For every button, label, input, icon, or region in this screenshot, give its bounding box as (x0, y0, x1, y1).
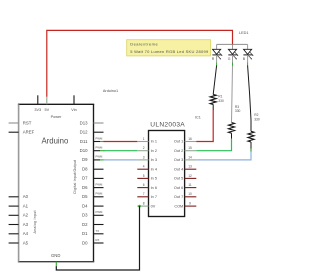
svg-text:LED1: LED1 (239, 31, 249, 35)
svg-text:14: 14 (188, 155, 192, 159)
wire R3 to Out 2 (green) (196, 139, 231, 151)
junction dot at 0V pin (138, 205, 141, 208)
pin GND (connected) (55, 262, 57, 267)
svg-text:13: 13 (188, 165, 192, 169)
svg-text:0V: 0V (151, 204, 156, 208)
svg-text:GND: GND (51, 253, 60, 258)
note Dealextreme (127, 40, 211, 56)
svg-text:D11: D11 (80, 139, 88, 144)
pin D2 (82, 222, 104, 227)
wire GND to 0V (green then black) (56, 206, 139, 270)
svg-text:8: 8 (143, 202, 145, 206)
svg-text:330: 330 (218, 99, 224, 103)
svg-text:11: 11 (188, 183, 192, 187)
pin D0 (82, 238, 104, 245)
svg-text:A1: A1 (23, 203, 29, 208)
svg-text:Out 1: Out 1 (174, 140, 183, 144)
ULN pin 1 (In 1) (137, 137, 157, 144)
svg-text:In 7: In 7 (151, 195, 157, 199)
green tip at R2/Out3 junction (250, 149, 252, 152)
pin D9 (82, 155, 105, 163)
ULN pin 8 (0V) (137, 202, 155, 209)
svg-text:A0: A0 (23, 194, 29, 199)
svg-text:330: 330 (235, 109, 241, 113)
svg-text:D8: D8 (82, 167, 88, 172)
ULN pin 10 (Out 7) (174, 192, 196, 199)
pin A3 (9, 222, 29, 227)
svg-text:1: 1 (143, 137, 145, 141)
svg-text:RST: RST (23, 120, 32, 125)
svg-text:In 5: In 5 (151, 177, 157, 181)
wire D10 to In 2 (green) (104, 150, 138, 152)
svg-text:12: 12 (188, 174, 192, 178)
LED1 green diode element (228, 44, 239, 66)
svg-text:5: 5 (143, 174, 145, 178)
ULN pin 2 (In 2) (137, 146, 157, 153)
ULN pin 5 (In 5) (137, 174, 157, 181)
svg-text:RX: RX (96, 238, 100, 242)
svg-text:Vin: Vin (71, 108, 76, 112)
svg-text:In 3: In 3 (151, 158, 157, 162)
svg-text:G: G (228, 57, 231, 61)
pin 5V (connected) (44, 97, 49, 112)
ULN pin 3 (In 3) (137, 155, 157, 162)
LED1 blue diode element (243, 44, 254, 66)
pin A5 (9, 240, 29, 245)
svg-text:D7: D7 (82, 176, 88, 181)
pin D4 (82, 203, 104, 208)
wire 5V to LED1 anodes (red) (47, 30, 233, 96)
svg-text:PWM: PWM (96, 182, 104, 186)
svg-text:A4: A4 (23, 231, 29, 236)
ULN pin 9 (COM) (174, 202, 196, 209)
pin Vin (71, 95, 76, 112)
svg-text:D9: D9 (82, 157, 88, 162)
svg-text:2: 2 (143, 146, 145, 150)
svg-text:Out 6: Out 6 (174, 186, 183, 190)
ULN pin 6 (In 6) (137, 183, 157, 190)
ULN pin 11 (Out 6) (174, 183, 196, 190)
ULN pin 15 (Out 2) (174, 146, 196, 153)
svg-text:10: 10 (188, 192, 192, 196)
svg-text:D0: D0 (82, 240, 88, 245)
ULN pin 7 (In 7) (137, 192, 157, 199)
LED1 red diode element (212, 44, 223, 66)
svg-text:Out 2: Out 2 (174, 149, 183, 153)
svg-text:9: 9 (189, 202, 191, 206)
wire R1 to Out 1 (red) (196, 110, 213, 142)
svg-text:7: 7 (143, 192, 145, 196)
pin 3V3 (34, 95, 41, 112)
svg-text:330: 330 (254, 118, 260, 122)
svg-text:5 Watt 70 Lumen RGB Led SKU 28: 5 Watt 70 Lumen RGB Led SKU 28099 (130, 49, 209, 54)
pin D3 (82, 210, 104, 218)
svg-text:AREF: AREF (23, 130, 35, 135)
pin D8 (82, 167, 104, 172)
pin D5 (82, 192, 104, 200)
svg-text:6: 6 (143, 183, 145, 187)
svg-text:ULN2003A: ULN2003A (150, 122, 185, 129)
pin D6 (82, 182, 104, 190)
svg-text:5V: 5V (44, 108, 49, 112)
svg-text:D5: D5 (82, 194, 88, 199)
svg-text:Power: Power (51, 115, 62, 119)
ULN pin 16 (Out 1) (174, 137, 196, 144)
svg-text:Out 5: Out 5 (174, 177, 183, 181)
svg-text:PWM: PWM (96, 210, 104, 214)
svg-text:IC1: IC1 (195, 116, 201, 120)
svg-text:COM: COM (174, 204, 183, 208)
pin RST (9, 120, 32, 125)
svg-text:Out 4: Out 4 (174, 167, 183, 171)
svg-text:Out 7: Out 7 (174, 195, 183, 199)
wire R2 to Out 3 (blue) (196, 149, 251, 160)
svg-text:D3: D3 (82, 213, 88, 218)
svg-text:PWM: PWM (96, 192, 104, 196)
resistor R1 330 (210, 94, 224, 110)
svg-text:In 6: In 6 (151, 186, 157, 190)
pin A1 (9, 203, 29, 208)
svg-text:Digital Input/Output: Digital Input/Output (73, 160, 77, 194)
resistor R3 330 (229, 105, 241, 139)
ULN2003A IC1 body (149, 131, 185, 217)
resistor R2 330 (248, 113, 260, 148)
svg-text:D4: D4 (82, 203, 88, 208)
svg-text:D1: D1 (82, 231, 88, 236)
svg-text:A2: A2 (23, 213, 29, 218)
svg-text:PWM: PWM (96, 136, 104, 140)
svg-text:TX: TX (96, 229, 100, 233)
pin D13 (80, 120, 104, 125)
pin D12 (80, 130, 104, 135)
svg-text:D6: D6 (82, 185, 88, 190)
pin A2 (9, 213, 29, 218)
LED1 anode bus wire (217, 43, 248, 45)
svg-text:4: 4 (143, 165, 145, 169)
ULN pin 4 (In 4) (137, 165, 157, 172)
svg-text:3: 3 (143, 155, 145, 159)
svg-text:3V3: 3V3 (34, 108, 41, 112)
svg-text:Dealextreme: Dealextreme (130, 41, 158, 46)
svg-text:D12: D12 (80, 130, 88, 135)
svg-text:D2: D2 (82, 222, 88, 227)
svg-text:PWM: PWM (96, 155, 104, 159)
svg-text:Arduino: Arduino (41, 136, 69, 145)
svg-text:D13: D13 (80, 120, 88, 125)
wire LED R cathode to R1 (black) (213, 66, 216, 95)
pin D11 (80, 136, 105, 144)
svg-text:Out 3: Out 3 (174, 158, 183, 162)
svg-text:Arduino1: Arduino1 (103, 89, 118, 93)
svg-text:In 4: In 4 (151, 167, 157, 171)
wire D9 to In 3 (blue) (104, 159, 138, 161)
svg-text:D10: D10 (80, 148, 88, 153)
pin A0 (9, 194, 29, 199)
svg-text:15: 15 (188, 146, 192, 150)
svg-text:In 2: In 2 (151, 149, 157, 153)
pin D10 (80, 146, 105, 154)
wire LED G cathode to R3 (grey) (232, 66, 233, 123)
ULN pin 14 (Out 3) (174, 155, 196, 162)
Arduino U1 body (18, 104, 94, 261)
ULN pin 12 (Out 5) (174, 174, 196, 181)
pin D7 (82, 176, 104, 181)
svg-text:A5: A5 (23, 240, 29, 245)
svg-text:A3: A3 (23, 222, 29, 227)
svg-text:PWM: PWM (96, 146, 104, 150)
wire D11 to In 1 (red) (104, 141, 138, 143)
pin AREF (9, 130, 35, 135)
svg-text:16: 16 (188, 137, 192, 141)
ULN pin 13 (Out 4) (174, 165, 196, 172)
pin A4 (9, 231, 29, 236)
pin D1 (82, 229, 104, 236)
svg-text:Analog Input: Analog Input (33, 211, 37, 234)
svg-text:In 1: In 1 (151, 140, 157, 144)
wire LED B cathode to R2 (black) (248, 66, 251, 132)
